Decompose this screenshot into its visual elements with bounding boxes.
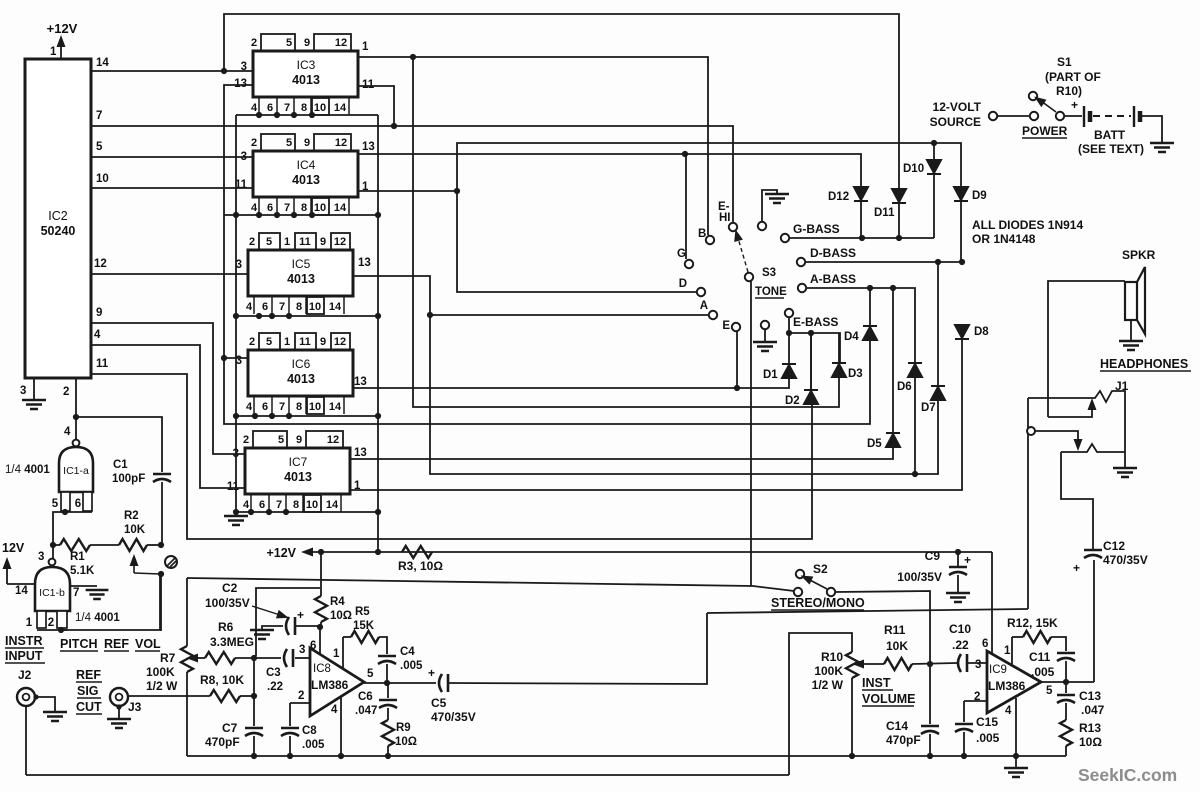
- junction C15/bus: [961, 753, 967, 759]
- svg-text:C13: C13: [1079, 689, 1101, 703]
- IC5 4013 flip-flop body: [248, 250, 353, 296]
- svg-text:LM386: LM386: [988, 679, 1026, 693]
- svg-text:5: 5: [286, 37, 292, 49]
- IC5 bus junction: [233, 313, 239, 319]
- IC5 bus junction: [256, 313, 262, 319]
- svg-text:100/35V: 100/35V: [897, 570, 942, 584]
- R7 wiper arrowhead: [186, 654, 198, 663]
- IC6 bottom pin stub: [271, 396, 273, 414]
- svg-text:5: 5: [286, 137, 292, 149]
- svg-text:13: 13: [358, 257, 371, 269]
- wire IC4 pin13 to D12/G post: [358, 154, 861, 187]
- svg-text:13: 13: [354, 376, 367, 388]
- C4 bottom stem: [386, 664, 388, 683]
- svg-text:HI: HI: [719, 212, 731, 224]
- IC7 top pin frame 9-12: [306, 431, 343, 448]
- wire IC7 pin1 to D8: [350, 339, 962, 490]
- svg-text:IC8: IC8: [313, 663, 331, 675]
- NOR gate IC1-a body: [59, 447, 93, 492]
- wire D4 top stem: [869, 288, 871, 326]
- svg-text:REF: REF: [76, 668, 101, 682]
- svg-text:4: 4: [251, 102, 258, 114]
- capacitor C10: [958, 654, 961, 672]
- svg-text:6: 6: [267, 202, 273, 214]
- junction IC1-a output tie: [62, 509, 68, 515]
- IC4 bus junction: [256, 212, 262, 218]
- svg-text:+: +: [297, 608, 304, 622]
- C12 top wire to J1: [1061, 452, 1093, 550]
- svg-text:IC2: IC2: [48, 209, 68, 223]
- 12V arrow stem: [6, 564, 8, 584]
- IC9 pin 1 stub: [1011, 637, 1013, 664]
- wire IC2 pin14 to IC3 pin3: [91, 70, 253, 72]
- diode D4: [863, 326, 877, 340]
- svg-text:13: 13: [362, 141, 375, 153]
- IC7 bus junction: [248, 509, 254, 515]
- svg-text:HEADPHONES: HEADPHONES: [1100, 357, 1188, 371]
- junction R10/bus: [849, 753, 855, 759]
- C2 left wire to ground: [262, 626, 283, 630]
- junction R6/C3/C2frame: [251, 655, 257, 661]
- R6 left arrow wire: [196, 657, 205, 659]
- junction D2 top: [808, 330, 814, 336]
- junction IC2 pin2/C1/IC1-a: [73, 414, 79, 420]
- svg-text:OR 1N4148: OR 1N4148: [972, 232, 1036, 246]
- wire IC2 pin4 to IC7 pin11: [91, 345, 245, 488]
- IC1-a legs tie: [61, 511, 92, 513]
- svg-text:4: 4: [94, 329, 101, 341]
- svg-text:B: B: [698, 228, 706, 240]
- diode D7: [931, 386, 945, 400]
- IC6 bottom pin stub: [305, 396, 307, 414]
- svg-text:S2: S2: [813, 562, 828, 576]
- junction bus/+12V rail: [375, 549, 381, 555]
- junction D1 top: [786, 330, 792, 336]
- POWER label underline: [1022, 137, 1067, 139]
- C12 riser from output: [1093, 560, 1095, 682]
- svg-text:1/4 4001: 1/4 4001: [75, 612, 120, 624]
- S1 common: [1056, 112, 1064, 120]
- svg-text:4013: 4013: [292, 173, 320, 187]
- svg-text:5: 5: [278, 434, 284, 446]
- IC5 bottom pin stub: [253, 296, 255, 314]
- wire IC3 pin1 to B post: [358, 57, 708, 235]
- capacitor C5: [439, 674, 442, 692]
- capacitor C2: [286, 617, 289, 635]
- S1 pole: [1030, 112, 1038, 120]
- svg-text:.005: .005: [302, 739, 325, 751]
- IC8 pin 2 wire: [290, 702, 310, 704]
- svg-text:10: 10: [309, 301, 321, 313]
- diode D8: [955, 325, 969, 339]
- S3 arm arrowhead: [731, 228, 743, 242]
- capacitor C13: [1057, 694, 1075, 697]
- svg-text:IC3: IC3: [297, 58, 316, 72]
- IC4 bus junction: [291, 212, 297, 218]
- resistor R5: [351, 631, 379, 643]
- svg-text:J2: J2: [18, 668, 32, 682]
- IC3 bottom pin frame 10: [312, 98, 329, 115]
- ground at IC2 pin 3: [22, 400, 46, 409]
- IC2 pin 2 wire down: [75, 378, 77, 417]
- svg-text:+: +: [428, 666, 435, 680]
- svg-text:13: 13: [234, 78, 247, 90]
- junction D8/D9: [959, 259, 965, 265]
- C13 to R13: [1065, 703, 1067, 720]
- S3 TONE label underline: [755, 297, 784, 299]
- svg-text:A: A: [700, 300, 708, 312]
- IC6 top pin frame 12: [331, 333, 350, 350]
- svg-text:14: 14: [329, 401, 342, 413]
- svg-text:D3: D3: [848, 368, 863, 380]
- +12V arrow head: [57, 35, 66, 47]
- R4 top stem: [320, 552, 322, 596]
- S3 arm wire down to volume line: [750, 281, 752, 586]
- IC4 bottom pin stub: [276, 197, 278, 215]
- IC3 top pin frame 2-5: [261, 34, 295, 51]
- diode D10: [927, 160, 941, 174]
- junction IC8 pin4/bus: [338, 753, 344, 759]
- svg-text:5: 5: [1046, 685, 1053, 697]
- svg-text:CUT: CUT: [76, 700, 102, 714]
- op-amp IC8 LM386 body: [310, 648, 364, 716]
- wire IC2 pin12 to IC5 pin3: [91, 273, 248, 275]
- D-BASS wire: [805, 261, 962, 263]
- svg-text:470pF: 470pF: [886, 733, 921, 747]
- junction R2 wiper/C1 column: [158, 571, 164, 577]
- svg-text:100pF: 100pF: [112, 473, 145, 485]
- IC9 output wire: [1041, 681, 1094, 683]
- wire IC3 pin1 riser to D3 line: [413, 57, 839, 407]
- svg-text:50240: 50240: [41, 224, 76, 238]
- vertical bus right joining 4013 bottom rows: [377, 115, 379, 552]
- IC1-a pin 6 leg: [83, 492, 92, 511]
- svg-text:11: 11: [362, 79, 375, 91]
- IC5 bottom supply bus: [236, 315, 378, 317]
- S2 throw upper: [796, 570, 804, 578]
- wire to IC1-b bubble: [52, 545, 54, 558]
- svg-text:1: 1: [1004, 645, 1011, 657]
- resistor R11: [884, 658, 912, 670]
- diode D2: [804, 390, 818, 404]
- svg-text:11: 11: [96, 358, 109, 370]
- IC4 bus junction: [375, 212, 381, 218]
- 12V source terminal: [989, 112, 997, 120]
- svg-text:R1: R1: [70, 551, 85, 563]
- IC4 bottom pin stub: [310, 197, 312, 215]
- svg-text:5: 5: [52, 498, 59, 510]
- S2 pole left: [794, 588, 802, 596]
- svg-text:9: 9: [320, 236, 326, 248]
- C6 to R9: [387, 708, 389, 720]
- ground at C9: [946, 593, 970, 602]
- svg-text:7: 7: [73, 587, 79, 599]
- ground at battery: [1150, 143, 1174, 152]
- IC6 bus junction: [252, 413, 258, 419]
- IC7 bottom pin stub: [302, 494, 304, 512]
- svg-text:8: 8: [293, 499, 299, 511]
- +12V rail: [308, 551, 992, 553]
- svg-text:3.3MEG: 3.3MEG: [210, 635, 254, 649]
- ground at spare post: [753, 342, 777, 351]
- IC6 bottom pin stub: [253, 396, 255, 414]
- J1 spring arrowhead up: [1088, 398, 1097, 410]
- resistor R3: [402, 546, 432, 558]
- R10 bottom stem: [851, 678, 853, 756]
- wire IC2 pin9 to IC7 pin3: [91, 323, 245, 454]
- diode D3: [832, 363, 846, 377]
- REF label underline: [76, 681, 102, 683]
- svg-text:8: 8: [301, 102, 307, 114]
- S1 arm arrowhead: [1032, 93, 1047, 107]
- svg-text:R2: R2: [124, 510, 139, 522]
- wire D post from selector frame: [457, 191, 697, 292]
- svg-text:14: 14: [329, 301, 342, 313]
- capacitor C4: [378, 655, 396, 658]
- svg-text:R3, 10Ω: R3, 10Ω: [398, 559, 443, 573]
- wire IC2 pin10 to IC4 pin11: [91, 187, 253, 189]
- IC5 bus junction: [375, 313, 381, 319]
- svg-text:IC1-b: IC1-b: [39, 587, 65, 599]
- svg-text:10Ω: 10Ω: [395, 736, 417, 748]
- svg-text:+: +: [964, 553, 971, 567]
- IC6 bus junction: [233, 413, 239, 419]
- R11 right wire: [912, 663, 957, 664]
- C1 bottom wire: [161, 482, 163, 545]
- svg-text:1: 1: [26, 617, 33, 629]
- post G: [685, 260, 693, 268]
- +12V supply arrow stem into IC2 pin 1: [60, 42, 62, 58]
- junction D6 bottom: [912, 471, 918, 477]
- svg-text:.047: .047: [355, 705, 377, 717]
- svg-text:2: 2: [251, 137, 257, 149]
- wire D6 bottom stem: [914, 377, 916, 474]
- svg-text:10Ω: 10Ω: [1079, 735, 1102, 749]
- IC1-b pin 2 leg: [57, 611, 67, 628]
- resistor R1: [60, 539, 90, 551]
- svg-text:BATT: BATT: [1094, 128, 1126, 142]
- IC6 bus junction: [269, 413, 275, 419]
- S1 arm: [1041, 101, 1056, 112]
- battery BATT cell 2: [1134, 106, 1140, 127]
- svg-text:S1: S1: [1057, 55, 1072, 69]
- C11 bottom stem: [1065, 661, 1067, 682]
- svg-text:7: 7: [284, 102, 290, 114]
- +12V rail down to IC9 pin 6: [991, 552, 993, 656]
- svg-text:SIG: SIG: [77, 684, 99, 698]
- IC7 bus junction: [266, 509, 272, 515]
- junction R4 top: [318, 549, 324, 555]
- wire D11 bottom stem: [898, 203, 900, 238]
- svg-text:ALL DIODES 1N914: ALL DIODES 1N914: [972, 218, 1083, 232]
- svg-text:1/2 W: 1/2 W: [146, 679, 178, 693]
- spare post near E: [761, 321, 769, 329]
- svg-text:7: 7: [96, 110, 102, 122]
- IC6 bus junction: [375, 413, 381, 419]
- wire D12 bottom stem: [860, 201, 862, 238]
- IC4 top pin frame 2-5: [261, 134, 295, 151]
- wire IC1-b legs to C1 column: [61, 575, 160, 630]
- svg-text:IC6: IC6: [292, 357, 311, 371]
- junction IC4 pin1: [454, 188, 460, 194]
- S2 common wire down to R11: [835, 591, 930, 664]
- E-BASS wire: [789, 317, 840, 363]
- svg-text:C11: C11: [1029, 650, 1051, 664]
- CUT label underline: [76, 713, 102, 715]
- capacitor C12 plates: [1084, 549, 1102, 552]
- IC5 top pin frame 5: [259, 233, 280, 250]
- R13 bottom stem: [1065, 746, 1067, 756]
- capacitor C7: [245, 727, 263, 730]
- svg-text:R10): R10): [1056, 84, 1082, 98]
- vertical bus left joining 4013 bottom rows: [235, 115, 237, 512]
- svg-text:C1: C1: [113, 459, 128, 471]
- svg-text:D8: D8: [974, 326, 989, 338]
- IC1-a pin 5 leg: [61, 492, 70, 511]
- resistor R9: [382, 720, 394, 746]
- VOLUME label underline: [862, 705, 914, 707]
- svg-text:2: 2: [243, 434, 249, 446]
- svg-text:4: 4: [246, 301, 253, 313]
- svg-text:6: 6: [259, 499, 265, 511]
- wire D5 top stem: [892, 288, 894, 433]
- junction D5 top: [890, 285, 896, 291]
- svg-text:4: 4: [1005, 705, 1012, 717]
- J3 to R8 wire: [128, 695, 210, 697]
- svg-text:2: 2: [251, 37, 257, 49]
- jack J3 outer: [110, 688, 128, 706]
- svg-text:1: 1: [284, 236, 290, 248]
- capacitor C15: [955, 723, 973, 726]
- junction pin14 net: [221, 68, 227, 74]
- J2 input riser to R10: [789, 633, 852, 775]
- ground at J1: [1113, 468, 1137, 477]
- J2 instrument line: [26, 774, 789, 776]
- IC3 bus junction: [256, 112, 262, 118]
- svg-text:D1: D1: [763, 369, 778, 381]
- SIG label underline: [77, 697, 101, 699]
- svg-text:VOL: VOL: [135, 637, 161, 651]
- IC7 4013 flip-flop body: [245, 448, 350, 494]
- IC1-b pin 7 to ground: [70, 585, 97, 587]
- IC5 top pin frame 11: [295, 233, 316, 250]
- junction G post riser: [682, 151, 688, 157]
- speaker SPKR symbol: [1125, 282, 1137, 320]
- battery dashed link: [1093, 115, 1131, 117]
- svg-text:6: 6: [262, 401, 268, 413]
- svg-text:10: 10: [314, 102, 326, 114]
- potentiometer R7: [181, 646, 193, 672]
- svg-text:D11: D11: [874, 207, 895, 219]
- wire G post riser: [685, 154, 687, 259]
- svg-text:9: 9: [304, 37, 310, 49]
- svg-text:1: 1: [333, 648, 340, 660]
- svg-text:14: 14: [15, 585, 28, 597]
- main ground right: [1004, 768, 1028, 777]
- VOL label underline: [135, 650, 160, 652]
- 12V arrow head: [3, 557, 12, 569]
- svg-text:5: 5: [367, 668, 374, 680]
- capacitor C8: [281, 727, 299, 730]
- svg-text:12: 12: [334, 336, 346, 348]
- IC4 bus junction: [233, 212, 239, 218]
- svg-text:4013: 4013: [292, 73, 320, 87]
- wire source to S1: [997, 115, 1030, 117]
- IC7 top pin frame 2-5: [253, 431, 287, 448]
- svg-text:C10: C10: [949, 622, 971, 636]
- ground at C2: [250, 630, 274, 639]
- svg-text:D12: D12: [828, 191, 849, 203]
- post G-BASS: [781, 234, 789, 242]
- jack J2 inner: [23, 694, 30, 701]
- resistor R8: [210, 690, 240, 702]
- IC6 bus junction: [286, 413, 292, 419]
- svg-text:12: 12: [327, 434, 339, 446]
- svg-text:C3: C3: [266, 667, 281, 679]
- line A top corner: [186, 578, 188, 646]
- svg-text:(SEE TEXT): (SEE TEXT): [1078, 142, 1144, 156]
- G-BASS wire: [789, 237, 934, 239]
- junction D4 top: [867, 285, 873, 291]
- junction A post line: [427, 312, 433, 318]
- IC7 bus junction: [283, 509, 289, 515]
- svg-text:IC7: IC7: [289, 455, 308, 469]
- IC6 top pin frame 5: [259, 333, 280, 350]
- R7 bottom stem: [186, 672, 188, 756]
- svg-text:IC9: IC9: [989, 664, 1007, 676]
- svg-text:9: 9: [296, 434, 302, 446]
- junction C1/R2: [158, 542, 164, 548]
- potentiometer R2: [119, 539, 147, 551]
- resistor R13: [1060, 720, 1072, 746]
- R2 wiper arrowhead: [130, 554, 139, 566]
- post A: [709, 311, 717, 319]
- svg-text:R8, 10K: R8, 10K: [200, 673, 244, 687]
- resistor R6: [205, 652, 235, 664]
- svg-text:11: 11: [299, 236, 311, 248]
- IC6 bottom pin stub: [288, 396, 290, 414]
- spare post near E-HI: [758, 222, 766, 230]
- svg-text:6: 6: [267, 102, 273, 114]
- svg-text:14: 14: [96, 57, 109, 69]
- svg-text:9: 9: [304, 137, 310, 149]
- svg-text:S3: S3: [762, 267, 776, 279]
- J1 sleeve terminal: [1027, 427, 1035, 435]
- svg-text:SPKR: SPKR: [1122, 248, 1156, 262]
- IC5 bottom pin stub: [305, 296, 307, 314]
- IC6 pin 14 stub: [343, 396, 345, 414]
- IC2 pin 3 stub to ground: [33, 378, 35, 400]
- IC7 bottom pin frame 10: [304, 495, 321, 512]
- op-amp IC9 LM386 body: [987, 651, 1041, 713]
- IC5 bottom pin frame 10: [307, 297, 324, 314]
- volume line from R7 to S2: [187, 578, 794, 591]
- C2 pointer arrow: [252, 606, 280, 615]
- IC4 bottom pin stub: [293, 197, 295, 215]
- svg-text:G: G: [677, 248, 686, 260]
- svg-text:470pF: 470pF: [205, 735, 240, 749]
- svg-text:C14: C14: [886, 719, 908, 733]
- IC7 bottom supply bus: [234, 511, 378, 513]
- PITCH label underline: [60, 650, 98, 652]
- post E-BASS: [785, 309, 793, 317]
- svg-text:R12, 15K: R12, 15K: [1007, 616, 1058, 630]
- wire D10 stems: [933, 143, 935, 160]
- C2 right wire: [295, 625, 320, 627]
- battery BATT cell 1: [1084, 106, 1090, 127]
- svg-text:3: 3: [299, 644, 305, 656]
- wire E post riser: [736, 331, 738, 388]
